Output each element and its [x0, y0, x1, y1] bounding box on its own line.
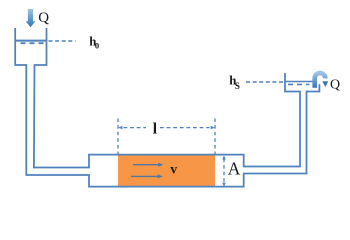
svg-text:S: S	[235, 81, 240, 91]
svg-text:l: l	[153, 121, 158, 138]
svg-text:v: v	[170, 161, 177, 176]
svg-text:Q: Q	[330, 77, 340, 92]
svg-text:A: A	[228, 158, 241, 178]
svg-text:0: 0	[95, 41, 99, 51]
svg-text:Q: Q	[38, 10, 49, 26]
